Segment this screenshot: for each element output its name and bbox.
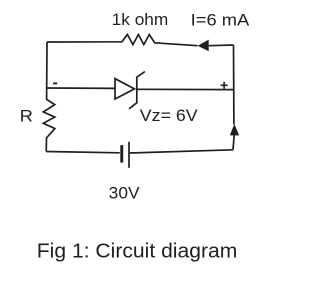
svg-text:Vz= 6V: Vz= 6V <box>140 106 199 125</box>
svg-text:30V: 30V <box>109 183 140 202</box>
svg-text:1k ohm: 1k ohm <box>112 10 169 29</box>
svg-text:I=6 mA: I=6 mA <box>191 10 250 29</box>
svg-text:R: R <box>20 106 33 125</box>
svg-text:Fig 1: Circuit diagram: Fig 1: Circuit diagram <box>37 240 238 263</box>
